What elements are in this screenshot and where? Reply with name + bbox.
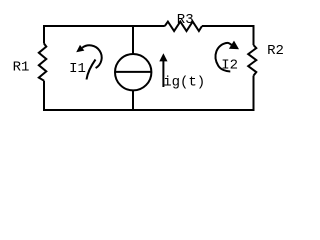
current source ig(t) circle: [115, 54, 151, 90]
wire bottom segment: [43, 109, 255, 111]
mesh current loop I1 arrowhead: [76, 45, 84, 52]
svg-text:R2: R2: [267, 43, 284, 59]
current source bar: [115, 71, 151, 73]
wire top-left segment: [43, 25, 165, 27]
svg-text:I2: I2: [221, 57, 238, 73]
svg-text:I1: I1: [69, 61, 86, 77]
mesh current loop I2 arc: [215, 43, 231, 72]
wire right side top lead: [253, 25, 255, 45]
wire left side top lead: [43, 25, 45, 44]
svg-text:ig(t): ig(t): [163, 75, 205, 91]
arrow ig(t) shaft: [162, 61, 164, 88]
svg-text:R3: R3: [177, 12, 194, 28]
wire left side bottom lead: [43, 81, 45, 111]
resistor R1 (zigzag on left wire): [39, 44, 47, 81]
wire top-right segment: [202, 25, 255, 27]
wire current source top lead: [132, 26, 134, 54]
arrow ig(t) head: [159, 53, 167, 61]
mesh current loop I2 arrowhead: [229, 41, 239, 50]
mesh current loop I1 arc: [82, 45, 102, 68]
svg-text:R1: R1: [13, 60, 30, 76]
resistor R3 (zigzag on top wire): [165, 22, 202, 31]
mesh current loop I1 tail: [87, 60, 96, 80]
wire current source bottom lead: [132, 90, 134, 110]
resistor R2 (zigzag on right wire): [248, 45, 256, 76]
wire right side bottom lead: [253, 76, 255, 111]
